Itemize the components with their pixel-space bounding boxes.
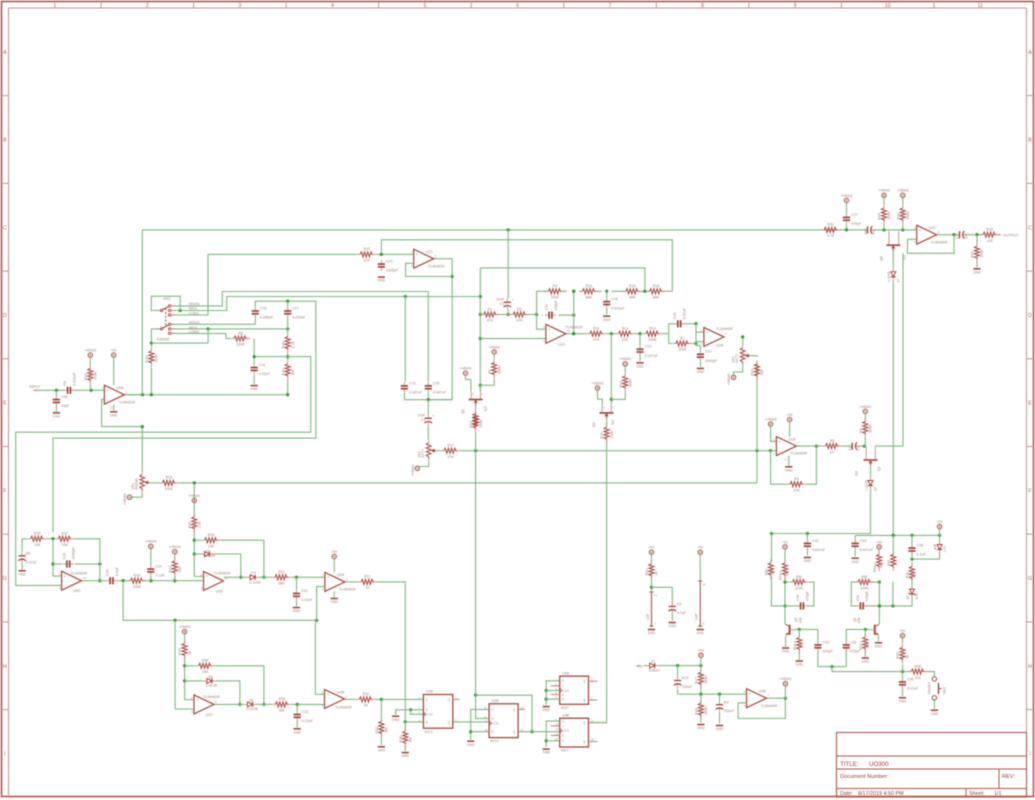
svg-text:CLK: CLK (427, 713, 434, 717)
svg-text:Q6: Q6 (853, 617, 857, 622)
svg-text:-: - (196, 708, 197, 712)
wire (286, 353, 289, 360)
wire C15/R7 right node (685, 322, 704, 345)
wire Q2 bias step (466, 375, 471, 392)
capacitor 10uF (417, 413, 434, 425)
svg-text:+VBIAS: +VBIAS (765, 418, 778, 422)
power +VBIAS (84, 349, 97, 358)
capacitor C13 (636, 345, 658, 358)
wire U5A gnd (113, 404, 115, 410)
wire U5D - input (16, 357, 311, 586)
flip-flop U3A (419, 690, 457, 734)
wire R43 to OUTPUT (996, 234, 1001, 236)
svg-text:GND: GND (875, 644, 883, 648)
svg-text:68K: 68K (653, 296, 660, 300)
svg-text:+VBIAS: +VBIAS (145, 540, 158, 544)
resistor R42 (971, 243, 985, 263)
svg-text:R44: R44 (84, 373, 88, 380)
wire R30 right loop (215, 666, 265, 706)
svg-text:3.9V: 3.9V (915, 592, 919, 599)
svg-text:C30: C30 (796, 595, 800, 602)
svg-text:0.1uF: 0.1uF (155, 574, 165, 578)
svg-text:+: + (327, 576, 329, 580)
wire R35 left to C5 (22, 539, 27, 552)
wire C14 gnd (253, 375, 255, 384)
ground (875, 643, 883, 649)
wire LED bottom to R49 (910, 553, 939, 561)
svg-text:R54-3: R54-3 (779, 571, 783, 580)
svg-text:R48: R48 (695, 708, 699, 715)
wire R53 bottom (772, 577, 786, 606)
svg-text:0.01uF: 0.01uF (907, 687, 919, 691)
wire D6 right loop (215, 681, 241, 706)
svg-text:SW1: SW1 (163, 297, 171, 301)
wire R11/R13 node to Q3 (610, 334, 613, 406)
wire R50 top (892, 535, 894, 554)
wire (771, 426, 777, 441)
wire (171, 318, 255, 325)
svg-text:47K: 47K (516, 319, 523, 323)
svg-text:R38: R38 (399, 736, 403, 743)
ground (697, 725, 705, 731)
svg-text:47K: 47K (487, 319, 494, 323)
svg-text:TL064IDR: TL064IDR (566, 325, 583, 329)
svg-text:TL064IDR: TL064IDR (716, 327, 733, 331)
svg-text:+9V: +9V (876, 540, 883, 544)
svg-text:GND: GND (603, 318, 611, 322)
wire C11 to riser (542, 313, 575, 316)
wire Q5 base to node (794, 628, 801, 631)
wire C22 (296, 577, 298, 606)
title block (837, 733, 1027, 798)
svg-text:13: 13 (59, 572, 63, 576)
wire (142, 228, 864, 231)
svg-text:-: - (327, 585, 328, 589)
svg-text:5: 5 (424, 3, 427, 9)
svg-text:1/1: 1/1 (994, 791, 1002, 797)
svg-text:2: 2 (146, 3, 149, 9)
ground (804, 558, 812, 564)
power +9V (697, 546, 704, 555)
svg-text:+VBIAS: +VBIAS (179, 625, 192, 629)
svg-text:R35: R35 (34, 532, 41, 536)
svg-text:0.03uF: 0.03uF (259, 372, 271, 376)
svg-text:U3D: U3D (216, 589, 224, 593)
wire C28 top (55, 390, 57, 396)
svg-text:1K: 1K (364, 704, 369, 708)
wire U1A - input (771, 450, 777, 452)
op-amp U5D (59, 571, 87, 593)
power +VBIAS (619, 357, 632, 366)
svg-text:4027: 4027 (561, 706, 569, 710)
svg-text:R10: R10 (586, 284, 593, 288)
ground (392, 716, 400, 722)
svg-text:S: S (562, 679, 564, 683)
svg-text:GND: GND (782, 650, 790, 654)
svg-text:+9V: +9V (698, 649, 705, 653)
wire (171, 295, 480, 312)
svg-text:R8: R8 (238, 331, 243, 335)
svg-text:-: - (749, 701, 750, 705)
svg-text:330K: 330K (648, 338, 657, 342)
op-amp U5A (101, 385, 135, 404)
resistor R37 (55, 532, 75, 547)
wire (39, 389, 64, 392)
svg-text:C5: C5 (26, 552, 31, 556)
op-amp U5C (914, 225, 948, 244)
svg-text:220pF: 220pF (850, 650, 861, 654)
svg-text:470pF: 470pF (805, 590, 809, 601)
svg-text:LOW1: LOW1 (189, 312, 199, 316)
wire C9 (719, 694, 721, 723)
resistor R28 (178, 640, 192, 660)
svg-text:H: H (1028, 664, 1032, 670)
op-amp U2B (322, 689, 348, 708)
svg-text:1M: 1M (291, 370, 295, 375)
svg-text:H: H (3, 664, 7, 670)
capacitor C8 (63, 372, 76, 394)
svg-text:GND: GND (330, 600, 338, 604)
svg-text:TL064IDR: TL064IDR (203, 695, 220, 699)
svg-text:4: 4 (331, 3, 334, 9)
svg-text:12: 12 (59, 586, 63, 590)
wire filter row 291 (562, 290, 672, 293)
wire C33 bottom (818, 651, 846, 668)
wire (908, 235, 955, 254)
diode D2 (864, 477, 877, 491)
svg-text:U3P: U3P (646, 613, 650, 620)
wire U3D out to D3 (224, 576, 247, 578)
svg-text:C26: C26 (62, 553, 66, 560)
wire U5D out (82, 580, 106, 582)
capacitor C12 (697, 350, 718, 363)
op-amp U1D (543, 324, 571, 346)
resistor R35 (27, 532, 47, 547)
svg-text:4013: 4013 (424, 730, 432, 734)
svg-text:D4: D4 (206, 549, 210, 553)
capacitor C35 (899, 677, 919, 690)
wire (937, 233, 957, 236)
ground (250, 386, 258, 392)
svg-text:1M: 1M (409, 738, 413, 743)
svg-text:R21: R21 (278, 570, 285, 574)
net label LOW1 (189, 312, 199, 316)
svg-text:Document Number:: Document Number: (840, 774, 889, 780)
svg-text:D2: D2 (874, 487, 878, 491)
wire (428, 259, 453, 400)
svg-text:R37: R37 (62, 532, 69, 536)
svg-text:470pF: 470pF (865, 590, 869, 601)
wire (771, 451, 787, 485)
wire R35-R37 junction (47, 537, 55, 540)
svg-text:R26: R26 (208, 533, 215, 537)
wire +9V stub D1 (700, 658, 702, 666)
svg-text:C14: C14 (259, 363, 266, 367)
wire Q1 node (864, 445, 866, 447)
svg-text:100K: 100K (133, 585, 142, 589)
wire C4 top (427, 400, 429, 415)
svg-text:TL064IDR: TL064IDR (335, 706, 352, 710)
wire C32 top (806, 534, 808, 540)
net label HIGH2 (189, 320, 200, 324)
wire R24 down to U4B Q (589, 441, 607, 723)
svg-text:R34: R34 (134, 574, 141, 578)
wire (480, 268, 645, 291)
svg-text:A: A (3, 50, 7, 56)
diode D3 (247, 571, 261, 584)
wire +9V to R54-3 (784, 549, 786, 562)
net label VIN (636, 664, 643, 668)
svg-text:S: S (426, 698, 428, 702)
svg-text:+: + (779, 440, 781, 444)
svg-text:22K: 22K (622, 338, 629, 342)
svg-text:R4: R4 (794, 477, 799, 481)
resistor R49 (909, 563, 914, 583)
svg-text:CLK: CLK (492, 722, 499, 726)
wire (171, 327, 289, 330)
svg-text:+VBIAS: +VBIAS (592, 381, 605, 385)
svg-text:D: D (1028, 313, 1032, 319)
ground (697, 368, 705, 374)
ground (110, 412, 118, 418)
svg-text:1M: 1M (771, 570, 775, 575)
pin stub U3A Q (453, 698, 460, 700)
wire C26 left (53, 563, 62, 565)
svg-text:0.1uF: 0.1uF (917, 553, 927, 557)
svg-text:100: 100 (915, 676, 921, 680)
wire RANGE to R29 bottom (150, 367, 152, 394)
resistor R54-1 (863, 633, 868, 653)
svg-text:INPUT: INPUT (29, 385, 41, 389)
svg-text:220pF: 220pF (823, 650, 834, 654)
wire (406, 263, 453, 276)
svg-text:REV:: REV: (1002, 774, 1015, 780)
svg-text:330K: 330K (551, 296, 560, 300)
svg-text:0.1uF: 0.1uF (115, 566, 119, 576)
wire R9 bottom (480, 379, 494, 385)
wire C5 gnd (21, 563, 23, 569)
svg-text:1000pF: 1000pF (705, 359, 718, 363)
svg-text:4013: 4013 (490, 739, 498, 743)
labels Q5 (794, 617, 802, 623)
wire (747, 356, 757, 357)
svg-text:11: 11 (784, 458, 788, 461)
svg-text:C19: C19 (409, 381, 416, 385)
svg-text:+VBIAS: +VBIAS (841, 194, 854, 198)
capacitor C26 (62, 546, 75, 567)
svg-text:GND: GND (804, 559, 812, 563)
svg-text:12: 12 (201, 586, 205, 590)
svg-text:GND: GND (697, 726, 705, 730)
capacitor C36 (908, 544, 926, 557)
svg-text:R55: R55 (896, 652, 900, 659)
wire C24 (150, 552, 152, 581)
svg-text:11: 11 (485, 720, 488, 724)
op-amp U2C (191, 695, 217, 717)
wire R27 to U3A reset net (378, 582, 407, 724)
wire R12 bottom (611, 392, 625, 399)
wire (207, 329, 209, 343)
svg-text:+: + (196, 698, 198, 702)
wire (741, 335, 744, 345)
resistor R22 (473, 410, 478, 430)
svg-text:33K: 33K (760, 369, 764, 376)
svg-text:Date:: Date: (840, 791, 853, 797)
switch SW1 (156, 297, 176, 341)
svg-text:C36: C36 (917, 544, 924, 548)
svg-text:680: 680 (279, 709, 285, 713)
wire C27 to bus (845, 224, 848, 231)
capacitor C10 (674, 676, 693, 689)
wire R47 (700, 666, 702, 695)
svg-text:0.047uF: 0.047uF (433, 391, 447, 395)
svg-text:1N5817: 1N5817 (648, 669, 660, 673)
svg-text:GND: GND (697, 370, 705, 374)
wire C26 right to fb node (75, 562, 102, 565)
svg-text:U3B: U3B (492, 699, 500, 703)
wire R36 to U2B (292, 703, 325, 706)
capacitor C14 (251, 363, 271, 376)
svg-text:330K: 330K (678, 348, 687, 352)
svg-text:C25: C25 (106, 570, 110, 577)
switch SW2 (928, 677, 947, 700)
wire C36 bottom (911, 553, 913, 560)
svg-text:GND: GND (110, 413, 118, 417)
power +9V (111, 349, 118, 358)
wire D8 to bus (878, 597, 912, 607)
svg-text:10: 10 (485, 728, 489, 732)
diode D1 (646, 660, 660, 673)
wire +VBIAS to R46 (902, 198, 904, 205)
svg-text:1K: 1K (906, 654, 910, 659)
op-amp U5B (744, 689, 778, 708)
svg-text:+: + (433, 414, 435, 418)
net label OUTPUT (1003, 233, 1019, 237)
svg-text:R19: R19 (363, 247, 370, 251)
svg-text:R51: R51 (796, 575, 803, 579)
svg-text:+: + (107, 389, 109, 393)
capacitor C17 (284, 306, 306, 319)
svg-text:GND: GND (378, 279, 386, 283)
capacitor C34 (843, 640, 861, 653)
svg-text:-: - (919, 238, 920, 242)
svg-text:8: 8 (701, 3, 704, 9)
svg-text:GND: GND (467, 743, 475, 747)
svg-text:R18: R18 (653, 284, 660, 288)
svg-text:D: D (3, 313, 7, 319)
resistor R7 (672, 336, 692, 351)
wire x53 vertical (51, 539, 61, 576)
op-amp U1C (411, 249, 445, 268)
svg-text:R25: R25 (188, 522, 192, 529)
capacitor C7 (955, 231, 967, 239)
svg-text:8/17/2019 4:50 PM: 8/17/2019 4:50 PM (858, 791, 904, 797)
svg-text:C18: C18 (611, 297, 618, 301)
svg-text:0.22uF: 0.22uF (302, 719, 314, 723)
labels R50 (887, 560, 898, 566)
resistor R44 (84, 365, 98, 385)
resistor R21 (272, 570, 292, 585)
svg-text:GND: GND (402, 754, 410, 758)
svg-text:C8: C8 (63, 381, 67, 386)
svg-text:OCT1: OCT1 (421, 449, 425, 458)
svg-text:HIGH2: HIGH2 (189, 320, 200, 324)
wire (124, 380, 290, 396)
ground (378, 277, 386, 283)
svg-text:GND: GND (899, 699, 907, 703)
svg-text:113: 113 (854, 471, 858, 476)
svg-text:C23: C23 (302, 710, 309, 714)
svg-text:U2C: U2C (206, 713, 214, 717)
wire C36 top (911, 535, 913, 546)
wire U5A out to bus (124, 394, 143, 396)
svg-text:I: I (4, 751, 5, 757)
wire R54-1 (864, 629, 866, 656)
svg-text:R43: R43 (986, 228, 993, 232)
svg-text:14: 14 (654, 594, 658, 598)
svg-text:GND: GND (669, 624, 677, 628)
capacitor C27 (843, 213, 862, 226)
svg-text:GND: GND (378, 748, 386, 752)
svg-text:0.047uF: 0.047uF (645, 354, 659, 358)
label U2C part (203, 695, 220, 699)
wire U4B Q to riser (589, 722, 607, 724)
svg-text:14: 14 (83, 576, 87, 580)
svg-text:TL064IDR: TL064IDR (931, 240, 948, 244)
wire U2A gnd (333, 592, 335, 598)
power pins U3P (646, 592, 658, 626)
resistor R20 (751, 361, 765, 381)
label U3D part (214, 572, 232, 576)
svg-text:U4A: U4A (562, 671, 570, 675)
svg-text:+9V: +9V (899, 629, 906, 633)
wire (842, 445, 848, 447)
capacitor C15 (673, 307, 686, 327)
svg-text:C3: C3 (677, 602, 682, 606)
svg-text:0.047uF: 0.047uF (860, 548, 874, 552)
resistor R51 (789, 575, 809, 590)
svg-text:U1A: U1A (788, 437, 796, 441)
resistor R48 (695, 700, 709, 720)
wire (141, 230, 143, 395)
ground (293, 729, 301, 735)
wire C35 (902, 672, 904, 697)
wire Q2 gate to R22 (475, 405, 477, 413)
wire U4B S/R gnd (545, 721, 560, 747)
ground (862, 658, 870, 664)
svg-text:GND: GND (931, 712, 939, 716)
svg-text:GND: GND (973, 270, 981, 274)
svg-text:D1: D1 (651, 660, 655, 664)
wire R55 bottom (902, 665, 904, 672)
svg-text:D: D (603, 407, 605, 410)
wire D4 left (194, 553, 201, 555)
wire D3 to R21 (259, 576, 272, 578)
wire C32 gnd (806, 550, 808, 556)
pin stub U3B Q (518, 708, 525, 710)
svg-text:F: F (1028, 488, 1031, 494)
labels R53 (765, 569, 776, 575)
pin 11 (109, 406, 113, 409)
svg-text:R46: R46 (896, 213, 900, 220)
capacitor 1uF (863, 226, 875, 234)
wire R51/C30 left node (783, 577, 814, 624)
svg-text:U5B: U5B (759, 689, 767, 693)
svg-text:TL064IDR: TL064IDR (761, 704, 778, 708)
power +VBIAS (169, 545, 182, 554)
power +9V (782, 540, 789, 549)
svg-text:Q3: Q3 (592, 422, 596, 427)
